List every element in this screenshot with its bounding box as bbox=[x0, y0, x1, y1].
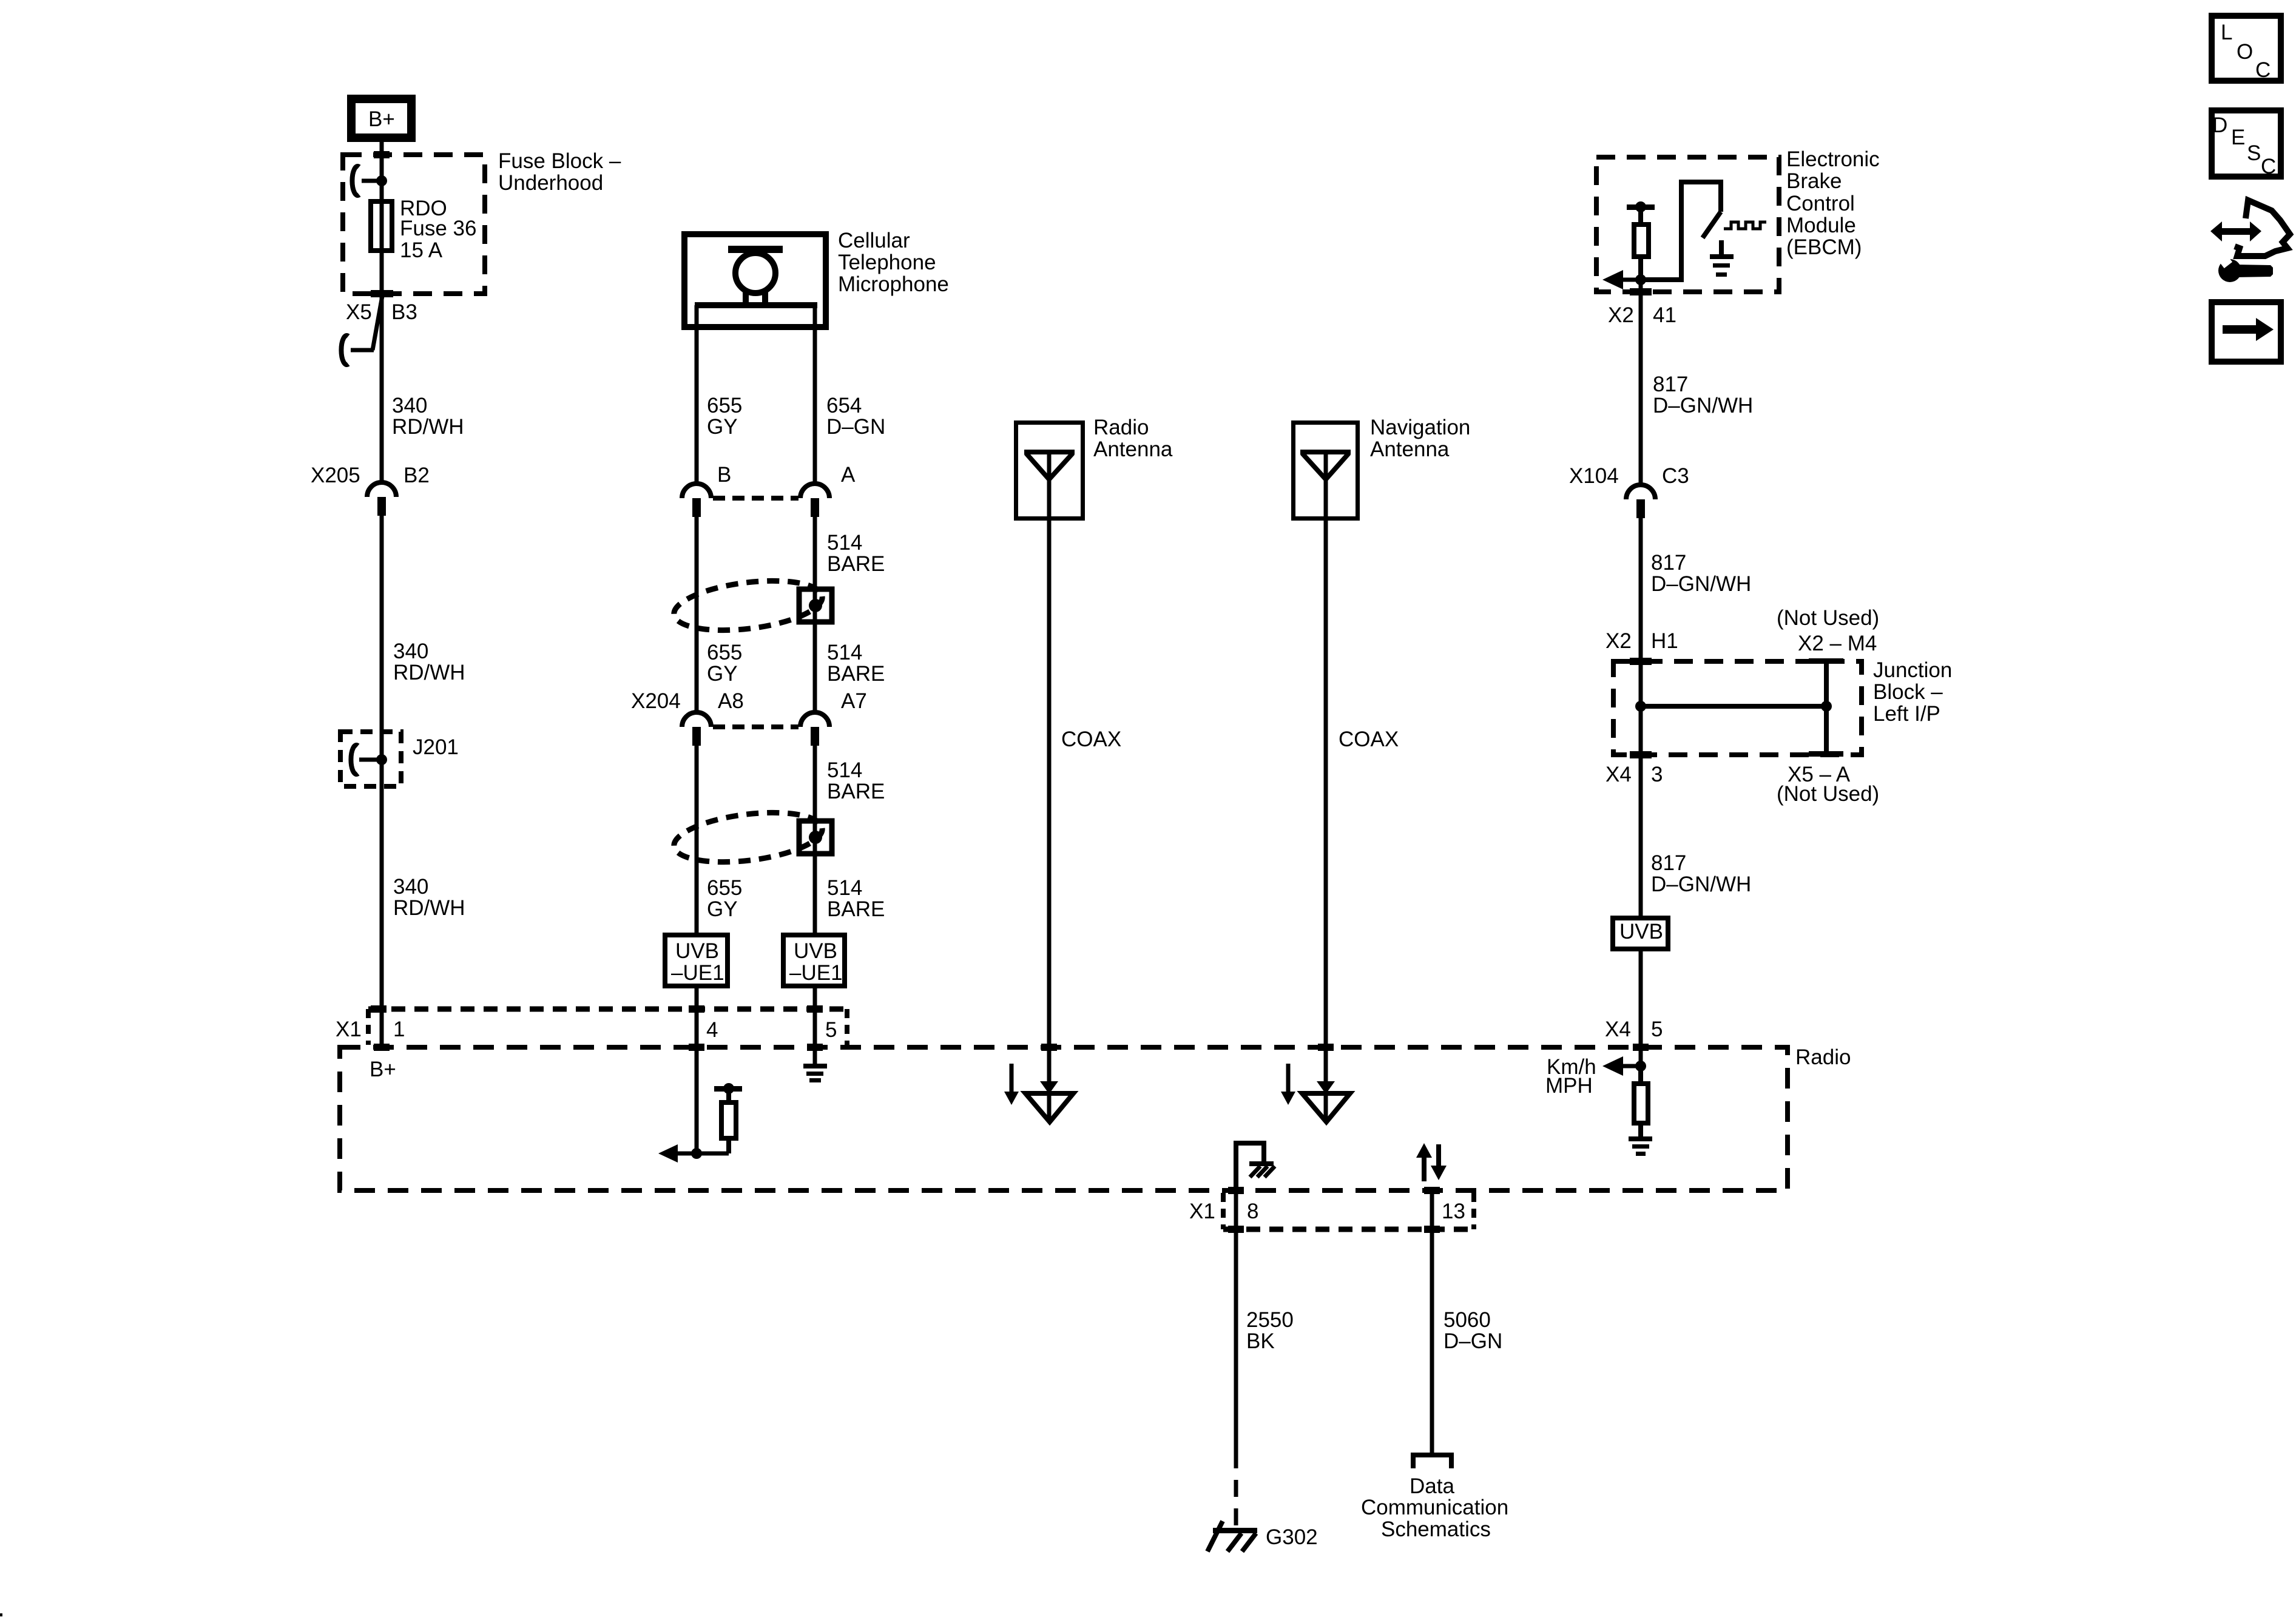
svg-text:3: 3 bbox=[1651, 763, 1663, 786]
tick at fuse block bottom edge bbox=[371, 290, 393, 297]
svg-text:654: 654 bbox=[826, 394, 862, 417]
tick at EBCM bottom edge bbox=[1630, 288, 1652, 295]
wire X104 to junction block bbox=[1639, 518, 1643, 706]
connector X5 pin B3 bbox=[341, 296, 417, 365]
internal ground symbol at pin 8 bbox=[1236, 1143, 1275, 1190]
switch contact ground inside EBCM bbox=[1710, 240, 1734, 277]
wire X205 to J201 bbox=[380, 516, 384, 1047]
navigation antenna box bbox=[1294, 416, 1471, 519]
serial data arrows at pin 13 bbox=[1416, 1143, 1447, 1181]
connector X1 row at radio bottom bbox=[1189, 1193, 1474, 1233]
terminal curl at fuse input bbox=[352, 166, 382, 195]
svg-text:1: 1 bbox=[393, 1018, 405, 1041]
svg-text:D–GN: D–GN bbox=[1443, 1329, 1502, 1353]
svg-text:(EBCM): (EBCM) bbox=[1786, 235, 1862, 259]
wire label 514 BARE bbox=[827, 531, 885, 576]
icon LOC box bbox=[2212, 16, 2281, 82]
svg-text:Underhood: Underhood bbox=[498, 171, 603, 195]
svg-text:C: C bbox=[2261, 155, 2276, 178]
signal arrow down at radio antenna input bbox=[1004, 1064, 1019, 1105]
svg-text:B+: B+ bbox=[368, 107, 395, 131]
svg-text:Radio: Radio bbox=[1093, 416, 1149, 439]
coax wire navigation antenna bbox=[1326, 452, 1399, 1120]
output arrow left inside EBCM bbox=[1602, 270, 1641, 289]
wire label 514 BARE bbox=[827, 641, 885, 686]
option box UVB-UE1 left bbox=[665, 935, 728, 986]
svg-text:B3: B3 bbox=[391, 300, 417, 324]
svg-text:–UE1: –UE1 bbox=[789, 961, 843, 985]
svg-text:Fuse Block –: Fuse Block – bbox=[498, 149, 621, 173]
svg-text:340: 340 bbox=[392, 394, 427, 417]
svg-text:UVB: UVB bbox=[794, 939, 837, 963]
tick at fuse block top edge bbox=[374, 151, 390, 158]
svg-text:13: 13 bbox=[1442, 1200, 1465, 1223]
dashed connector link A8-A7 bbox=[713, 724, 799, 729]
inline connector pin B bbox=[682, 463, 731, 517]
shield ellipse 1 bbox=[671, 573, 825, 637]
shield junction dot 2 bbox=[809, 831, 822, 844]
wire label 655 GY bbox=[707, 641, 742, 686]
svg-text:D–GN: D–GN bbox=[826, 415, 885, 439]
svg-text:Antenna: Antenna bbox=[1093, 437, 1173, 461]
svg-text:Control: Control bbox=[1786, 192, 1855, 215]
junction dot right inside junction block bbox=[1821, 701, 1832, 712]
label X5-A not used bbox=[1777, 763, 1879, 806]
svg-text:2550: 2550 bbox=[1246, 1308, 1294, 1332]
connector X4 pin 3 bbox=[1606, 763, 1663, 786]
svg-text:GY: GY bbox=[707, 415, 738, 439]
wire label 817 D-GN/WH bbox=[1651, 551, 1751, 596]
svg-text:X1: X1 bbox=[1189, 1200, 1215, 1223]
wire pin 8 ground 2550 BK bbox=[1236, 1190, 1294, 1528]
svg-text:817: 817 bbox=[1653, 373, 1688, 396]
icon DESC box bbox=[2212, 110, 2281, 178]
wire pin 4 into radio bbox=[695, 988, 699, 1153]
off-page connector to data schematics bbox=[1361, 1455, 1508, 1541]
wire label 340 RD/WH bbox=[393, 875, 465, 920]
svg-text:Navigation: Navigation bbox=[1370, 416, 1470, 439]
svg-text:Schematics: Schematics bbox=[1381, 1517, 1491, 1541]
svg-text:C: C bbox=[2255, 58, 2271, 82]
chassis ground at speed input bbox=[1629, 1136, 1652, 1156]
svg-text:X205: X205 bbox=[311, 464, 360, 487]
wire A7 to UVB bbox=[813, 746, 817, 933]
wire EBCM to X104 bbox=[1639, 280, 1643, 485]
svg-text:RD/WH: RD/WH bbox=[392, 415, 464, 439]
svg-text:8: 8 bbox=[1247, 1200, 1258, 1223]
splice J201 bbox=[340, 732, 459, 786]
connector X1 row at radio top bbox=[336, 1005, 847, 1045]
resistor at speed input bbox=[1634, 1066, 1648, 1137]
speed signal arrow Km/h MPH bbox=[1545, 1055, 1641, 1098]
svg-text:UVB: UVB bbox=[675, 939, 719, 963]
wire label 817 D-GN/WH bbox=[1651, 851, 1751, 896]
svg-text:5: 5 bbox=[825, 1018, 837, 1042]
resistor inside radio at pin 4 bbox=[714, 1083, 742, 1153]
connector X104 pin C3 bbox=[1569, 464, 1689, 518]
inline connector pin A bbox=[800, 463, 856, 517]
svg-text:Brake: Brake bbox=[1786, 169, 1842, 193]
wire label 655 GY bbox=[707, 876, 742, 921]
tick at junction block top edge bbox=[1630, 658, 1652, 665]
svg-text:Telephone: Telephone bbox=[838, 251, 936, 274]
resistor inside EBCM bbox=[1627, 201, 1655, 280]
svg-text:Microphone: Microphone bbox=[838, 272, 949, 296]
ticks at radio box edges bbox=[374, 1044, 1649, 1194]
svg-text:COAX: COAX bbox=[1061, 727, 1121, 751]
fuse block underhood dashed box bbox=[343, 149, 621, 294]
svg-text:Block –: Block – bbox=[1873, 680, 1943, 704]
switch loop inside EBCM bbox=[1641, 182, 1721, 280]
svg-text:X104: X104 bbox=[1569, 464, 1619, 488]
svg-text:X204: X204 bbox=[631, 689, 681, 713]
chassis ground at pin 5 bbox=[803, 1064, 827, 1082]
icon hand with wrench bbox=[2210, 200, 2290, 282]
junction dot left inside junction block bbox=[1635, 701, 1646, 712]
svg-text:X2 – M4: X2 – M4 bbox=[1798, 632, 1877, 655]
svg-text:MPH: MPH bbox=[1545, 1074, 1593, 1098]
fuse RDO Fuse 36 15 A bbox=[371, 197, 476, 262]
svg-text:A8: A8 bbox=[718, 689, 744, 713]
radio antenna symbol bbox=[1024, 452, 1075, 479]
wire junction block to UVB bbox=[1639, 706, 1643, 916]
junction dot pin 4 bbox=[691, 1148, 702, 1159]
wire label 655 GY bbox=[707, 394, 742, 439]
svg-text:D–GN/WH: D–GN/WH bbox=[1651, 873, 1751, 896]
svg-text:BARE: BARE bbox=[827, 552, 885, 576]
svg-text:Fuse 36: Fuse 36 bbox=[400, 217, 476, 240]
option box UVB bbox=[1613, 918, 1668, 949]
svg-text:COAX: COAX bbox=[1339, 727, 1399, 751]
wire pin 5 into radio bbox=[813, 988, 817, 1066]
svg-text:J201: J201 bbox=[413, 735, 459, 759]
wire A8 to UVB bbox=[695, 746, 699, 933]
connector X2 pin 41 bbox=[1608, 303, 1676, 327]
svg-text:B+: B+ bbox=[370, 1058, 396, 1081]
square wave signal symbol bbox=[1724, 222, 1766, 229]
radio antenna box bbox=[1016, 416, 1173, 519]
tick at junction block bottom edge bbox=[1630, 751, 1652, 758]
svg-text:Junction: Junction bbox=[1873, 658, 1952, 682]
svg-text:X2: X2 bbox=[1606, 629, 1632, 653]
icon arrow box bbox=[2212, 302, 2281, 362]
svg-text:D–GN/WH: D–GN/WH bbox=[1653, 394, 1753, 417]
svg-text:BARE: BARE bbox=[827, 780, 885, 803]
svg-text:E: E bbox=[2231, 126, 2245, 149]
antenna input symbol at radio bbox=[1025, 1081, 1073, 1122]
shield ellipse 2 bbox=[671, 805, 825, 869]
svg-text:340: 340 bbox=[393, 875, 428, 899]
svg-text:514: 514 bbox=[827, 531, 862, 555]
svg-text:514: 514 bbox=[827, 758, 862, 782]
svg-text:41: 41 bbox=[1653, 303, 1676, 327]
B+ power feed box bbox=[351, 99, 411, 138]
svg-text:Radio: Radio bbox=[1795, 1045, 1851, 1069]
svg-text:B2: B2 bbox=[403, 464, 430, 487]
connector X2 pin H1 bbox=[1606, 629, 1678, 653]
svg-text:BARE: BARE bbox=[827, 662, 885, 686]
microphone symbol bbox=[695, 246, 817, 305]
svg-text:BK: BK bbox=[1246, 1329, 1275, 1353]
svg-text:GY: GY bbox=[707, 662, 738, 686]
page corner speck bbox=[0, 1613, 2, 1616]
svg-text:Antenna: Antenna bbox=[1370, 437, 1450, 461]
svg-text:5: 5 bbox=[1651, 1018, 1663, 1041]
svg-text:817: 817 bbox=[1651, 551, 1686, 575]
svg-text:GY: GY bbox=[707, 897, 738, 921]
signal arrow down at nav antenna input bbox=[1281, 1064, 1295, 1105]
svg-text:C3: C3 bbox=[1662, 464, 1689, 488]
svg-text:D: D bbox=[2212, 113, 2227, 137]
connector X205 pin B2 bbox=[311, 464, 430, 516]
svg-text:X4: X4 bbox=[1606, 763, 1632, 786]
wire label 340 RD/WH bbox=[393, 640, 465, 684]
wire label 654 D-GN bbox=[826, 394, 885, 439]
svg-text:Data: Data bbox=[1410, 1474, 1454, 1498]
bus wire inside junction block bbox=[1641, 704, 1826, 709]
wire label 817 D-GN/WH bbox=[1653, 373, 1753, 417]
wire label 340 RD/WH bbox=[392, 394, 464, 439]
svg-text:RD/WH: RD/WH bbox=[393, 661, 465, 684]
shield junction dot 1 bbox=[809, 599, 822, 612]
svg-text:L: L bbox=[2221, 21, 2232, 44]
svg-text:(Not Used): (Not Used) bbox=[1777, 782, 1879, 806]
svg-text:D–GN/WH: D–GN/WH bbox=[1651, 572, 1751, 596]
svg-text:UVB: UVB bbox=[1619, 920, 1663, 944]
wire B+ to fuse block bbox=[380, 142, 384, 482]
svg-text:514: 514 bbox=[827, 876, 862, 900]
radio dashed box bbox=[340, 1045, 1851, 1190]
svg-text:BARE: BARE bbox=[827, 897, 885, 921]
svg-text:5060: 5060 bbox=[1443, 1308, 1491, 1332]
svg-text:O: O bbox=[2237, 40, 2253, 64]
svg-text:RD/WH: RD/WH bbox=[393, 896, 465, 920]
connector X204 pin A7 bbox=[800, 689, 867, 746]
svg-text:Communication: Communication bbox=[1361, 1496, 1508, 1519]
wire label 514 BARE bbox=[827, 758, 885, 803]
wire mic pin A bbox=[813, 305, 817, 484]
stub to X2-M4 terminal bbox=[1809, 658, 1843, 757]
svg-text:655: 655 bbox=[707, 641, 742, 664]
option box UVB-UE1 right bbox=[783, 935, 845, 986]
shield ground box 2 bbox=[799, 821, 832, 854]
cellular telephone microphone box bbox=[684, 229, 949, 327]
svg-text:–UE1: –UE1 bbox=[671, 961, 724, 985]
wire A to X204 A7 bbox=[813, 517, 817, 712]
svg-text:G302: G302 bbox=[1266, 1525, 1318, 1549]
svg-text:A: A bbox=[841, 463, 856, 487]
svg-text:S: S bbox=[2247, 141, 2261, 165]
output arrow left at pin 4 bbox=[658, 1144, 729, 1163]
coax wire radio antenna bbox=[1049, 452, 1121, 1120]
wire label 514 BARE bbox=[827, 876, 885, 921]
junction dot at speed input bbox=[1635, 1061, 1646, 1072]
svg-text:15 A: 15 A bbox=[400, 238, 443, 262]
svg-text:X5: X5 bbox=[346, 300, 372, 324]
junction dot at fuse input bbox=[376, 175, 387, 186]
svg-text:Cellular: Cellular bbox=[838, 229, 910, 252]
label not used X2-M4 bbox=[1777, 606, 1879, 655]
junction block dashed box bbox=[1613, 658, 1952, 755]
connector X4 pin 5 bbox=[1605, 1018, 1663, 1041]
svg-text:Module: Module bbox=[1786, 214, 1856, 237]
svg-text:514: 514 bbox=[827, 641, 862, 664]
svg-text:A7: A7 bbox=[841, 689, 867, 713]
svg-text:817: 817 bbox=[1651, 851, 1686, 875]
svg-text:X1: X1 bbox=[336, 1018, 362, 1041]
svg-text:Left I/P: Left I/P bbox=[1873, 702, 1940, 726]
svg-text:(Not Used): (Not Used) bbox=[1777, 606, 1879, 630]
connector X204 pin A8 bbox=[631, 689, 744, 746]
wire UVB to radio bbox=[1639, 951, 1643, 1066]
svg-text:Electronic: Electronic bbox=[1786, 147, 1880, 171]
svg-text:X4: X4 bbox=[1605, 1018, 1631, 1041]
wire pin 13 serial data 5060 D-GN bbox=[1432, 1190, 1502, 1454]
wire B to X204 A8 bbox=[695, 517, 699, 712]
svg-text:B: B bbox=[717, 463, 731, 487]
svg-text:655: 655 bbox=[707, 394, 742, 417]
junction dot inside EBCM bbox=[1635, 274, 1646, 285]
dashed connector link B-A bbox=[713, 496, 799, 501]
svg-text:655: 655 bbox=[707, 876, 742, 900]
shield ground box 1 bbox=[799, 589, 832, 622]
navigation antenna symbol bbox=[1300, 452, 1351, 479]
svg-text:340: 340 bbox=[393, 640, 428, 663]
svg-text:H1: H1 bbox=[1651, 629, 1678, 653]
antenna input symbol at radio nav bbox=[1302, 1081, 1350, 1122]
ground G302 bbox=[1207, 1521, 1318, 1551]
EBCM dashed box bbox=[1596, 147, 1880, 292]
wire mic pin B bbox=[695, 305, 699, 484]
svg-text:4: 4 bbox=[706, 1018, 718, 1042]
svg-text:X2: X2 bbox=[1608, 303, 1634, 327]
